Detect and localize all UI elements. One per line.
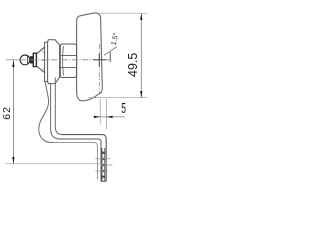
hex chamfer arc [62,46,65,76]
collar mid section [48,40,60,84]
dimension 62 line [12,60,14,163]
tab tick line 1 [95,158,110,160]
knob cone upper edge [36,47,44,54]
dimension 5 arrow left-pointing [106,116,112,118]
hex flat line upper [60,55,76,57]
dimension 62 arrow down [12,157,14,164]
dimension 5 line [93,116,125,118]
dimension 49.5 line [140,13,142,97]
dimension 62 extension line bottom [5,163,107,165]
bracket arm left flare curve [39,82,54,142]
flange plate [45,42,48,81]
bracket arm mid line and tab left edge [59,139,101,181]
svg-text:49.5: 49.5 [126,53,140,77]
dimension 62 arrow up [12,60,14,67]
bracket arm inner left edge [51,84,61,139]
knob cone lower edge [36,66,44,73]
dimension 49.5 arrow up [140,13,142,20]
ball knob [20,55,30,65]
plate side tick 3 [42,68,44,70]
svg-text:62: 62 [1,106,13,120]
tab serration band rails [101,148,103,181]
bracket arm bottom edge inner bend [53,142,97,179]
vertical centerline of grip [98,44,100,93]
cross solid strokes at axis intersection [93,59,106,61]
dimension 5 extension line right [105,99,107,129]
hex nut body [60,44,76,78]
tab tick line 3 [95,170,108,172]
dimension 49.5 extension line bottom [88,97,148,99]
knob neck [30,56,33,63]
horizontal centerline of knob axis [6,59,20,61]
bracket horizontal arm top edge and tab right edge [62,135,106,182]
dimension 49.5 arrow down [140,91,142,98]
hex flat line lower [60,67,76,69]
dimension 5 arrow right-pointing [94,116,100,118]
tab serration rungs [102,152,105,154]
bracket arm right edge [55,78,63,135]
dimension 49.5 extension line top [97,12,148,14]
angle tick mark [109,52,111,62]
dimension 5 extension line left [99,99,101,125]
plate side tick 2 [42,59,44,61]
tab tick line 2 [101,164,113,166]
tab bottom edge [101,180,106,182]
ball inner edge [27,56,29,64]
svg-text:5: 5 [121,99,126,116]
leader line for 1.5 deg [104,47,117,56]
plate side tick 1 [42,51,44,53]
knob collar [33,53,36,66]
handle grip outline [77,13,103,101]
